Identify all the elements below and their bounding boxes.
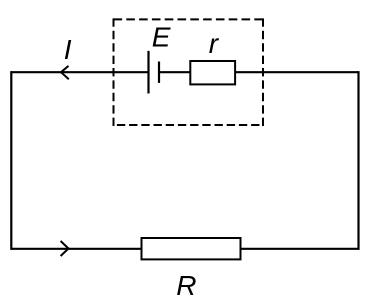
svg-text:R: R xyxy=(176,270,196,301)
svg-text:r: r xyxy=(209,28,220,59)
svg-text:I: I xyxy=(64,34,72,65)
svg-text:E: E xyxy=(152,21,171,52)
